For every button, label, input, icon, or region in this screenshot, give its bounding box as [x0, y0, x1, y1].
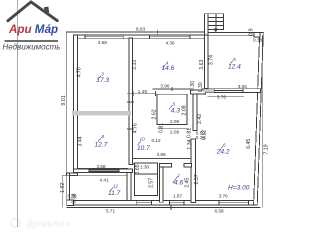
svg-text:0.38: 0.38 [253, 38, 263, 43]
outer left wall [74, 35, 78, 172]
svg-text:4.36: 4.36 [166, 40, 176, 45]
dim line 3.68 room8 [77, 167, 128, 169]
outer top wall left block [74, 35, 208, 39]
jog tick A [193, 130, 198, 132]
svg-text:1.92: 1.92 [60, 183, 66, 193]
svg-text:9: 9 [233, 57, 236, 62]
svg-text:0.9: 0.9 [248, 28, 254, 35]
svg-text:5: 5 [173, 102, 176, 107]
svg-text:0.38: 0.38 [72, 193, 78, 203]
dim line 2.09 below room5 [158, 128, 189, 130]
stair box [208, 14, 224, 30]
svg-text:0.81: 0.81 [158, 123, 164, 133]
svg-text:10.7: 10.7 [137, 145, 150, 152]
bottom dimension line [67, 207, 261, 209]
stair shaft left wall [205, 14, 209, 35]
svg-text:Недвижимость: Недвижимость [3, 43, 61, 52]
svg-text:8.93: 8.93 [136, 27, 146, 32]
gray walls [72, 89, 214, 116]
closet divider [135, 173, 158, 175]
wall between room3 and room4, corridor left wall [129, 38, 133, 165]
room 4 right wall / stair shaft wall [205, 35, 209, 89]
svg-text:Н=3.00: Н=3.00 [228, 185, 250, 192]
outer right wall (slight scan skew) [254, 32, 264, 205]
ticks corridor wall [127, 93, 134, 95]
svg-text:2.57: 2.57 [194, 174, 200, 184]
svg-text:6.58: 6.58 [215, 209, 225, 214]
svg-text:14.6: 14.6 [162, 65, 175, 72]
bottom window under closet [137, 201, 152, 206]
svg-text:2.09: 2.09 [170, 129, 180, 134]
closet box [135, 163, 158, 195]
svg-text:10: 10 [140, 137, 146, 142]
svg-text:3.68: 3.68 [97, 164, 107, 169]
window top wall room3 [85, 35, 123, 39]
logo chimney [44, 7, 49, 14]
svg-text:11: 11 [113, 183, 118, 188]
svg-text:0.30: 0.30 [198, 82, 204, 92]
top-right notch [254, 32, 260, 37]
svg-text:3.76: 3.76 [219, 193, 229, 198]
svg-text:6.45: 6.45 [246, 139, 252, 149]
room 7 top wall seg1 [160, 164, 172, 167]
svg-text:4.3: 4.3 [171, 107, 180, 114]
jog tick B [191, 138, 196, 140]
windows [85, 35, 249, 205]
svg-text:2.62: 2.62 [152, 109, 158, 119]
corridor-closet connector [132, 163, 134, 165]
faint vertical fold line [17, 0, 19, 227]
svg-text:7: 7 [177, 173, 180, 178]
svg-text:4.41: 4.41 [100, 177, 110, 182]
svg-text:1.49: 1.49 [138, 89, 148, 94]
stair arrow [215, 21, 217, 30]
gray wall room3|room8 [72, 111, 131, 115]
svg-text:4.76: 4.76 [132, 123, 138, 133]
svg-text:24.2: 24.2 [216, 149, 230, 156]
gray wall segment right of room4 [204, 89, 215, 93]
svg-text:4.6: 4.6 [174, 180, 183, 187]
ticks 1.49 [133, 91, 135, 96]
dim line 3.89 corridor bottom [132, 157, 191, 159]
room 8 bottom wall [74, 169, 133, 173]
svg-text:8: 8 [102, 134, 105, 139]
bottom window room7 [170, 201, 185, 206]
svg-text:5.71: 5.71 [106, 209, 116, 214]
room 7 top wall seg2 [184, 164, 191, 167]
svg-text:2.08: 2.08 [181, 105, 187, 115]
svg-text:3.63: 3.63 [199, 59, 205, 69]
svg-text:1:30: 1:30 [140, 164, 150, 169]
stair divider [215, 14, 217, 30]
svg-text:11.7: 11.7 [108, 190, 121, 197]
svg-text:3.96: 3.96 [160, 84, 170, 89]
logo underline [5, 40, 59, 42]
room 5 box [157, 94, 187, 124]
staircase [205, 14, 224, 35]
dim line 4.41 [62, 174, 126, 176]
svg-text:4.70: 4.70 [77, 67, 83, 77]
dim line 1.49 [132, 93, 156, 95]
small dimension lines [62, 30, 262, 208]
svg-text:3.44: 3.44 [77, 136, 83, 146]
logo roof [8, 2, 57, 21]
svg-text:0.81: 0.81 [187, 128, 193, 138]
svg-text:7.19: 7.19 [263, 144, 269, 154]
svg-text:9.01: 9.01 [61, 95, 67, 105]
svg-text:3.89: 3.89 [157, 152, 167, 157]
dim line 7.19 right [261, 36, 263, 208]
svg-text:Ари Ма́р: Ари Ма́р [8, 23, 58, 36]
dim line 3.76 below room9 window [208, 95, 245, 97]
svg-text:6: 6 [223, 143, 226, 148]
svg-text:0.78: 0.78 [196, 135, 206, 140]
bottom window room6 [219, 201, 249, 206]
dim line 1.92 [61, 175, 63, 207]
wall room7|room6 [191, 139, 195, 203]
svg-text:Домклик: Домклик [27, 218, 70, 228]
svg-text:12.4: 12.4 [228, 64, 241, 71]
bottom-left notch [67, 200, 74, 206]
room 11 right wall [127, 173, 131, 201]
room9 bottom / room6 top wall [202, 89, 261, 93]
svg-text:17.3: 17.3 [96, 77, 109, 84]
svg-text:3.68: 3.68 [98, 40, 108, 45]
wall room5|room6 [193, 94, 197, 131]
step to room 11 [67, 173, 78, 175]
svg-text:3.76: 3.76 [217, 95, 227, 100]
svg-text:12.7: 12.7 [95, 141, 108, 148]
window room9 bottom wall [214, 89, 243, 93]
svg-text:1.34: 1.34 [187, 139, 193, 149]
left dimension line 9.01 [65, 32, 67, 173]
dim line 3.96 above room5 [153, 88, 191, 90]
room 11 left wall [67, 173, 70, 205]
corridor top wall segment B [190, 90, 205, 94]
outer top wall right block [208, 32, 261, 35]
room 7 left wall [160, 164, 163, 203]
svg-text:2.42: 2.42 [197, 114, 203, 124]
window room8 bottom wall [89, 169, 119, 173]
watermark [11, 218, 70, 228]
stair rungs [208, 17, 224, 19]
svg-text:2.45: 2.45 [185, 178, 191, 188]
svg-text:3.33: 3.33 [132, 60, 138, 70]
svg-text:0.30: 0.30 [190, 81, 196, 91]
svg-text:1.87: 1.87 [173, 193, 183, 198]
svg-text:0.12: 0.12 [152, 138, 162, 143]
svg-text:2.57: 2.57 [149, 178, 155, 188]
tick on 8.93 line [156, 30, 158, 36]
bottom outer wall [67, 201, 257, 206]
window top wall room4 [150, 35, 190, 39]
svg-text:3.06: 3.06 [238, 84, 248, 89]
top dimension line 8.93 [66, 31, 205, 33]
svg-text:3.74: 3.74 [209, 55, 215, 65]
svg-text:2.09: 2.09 [170, 119, 180, 124]
